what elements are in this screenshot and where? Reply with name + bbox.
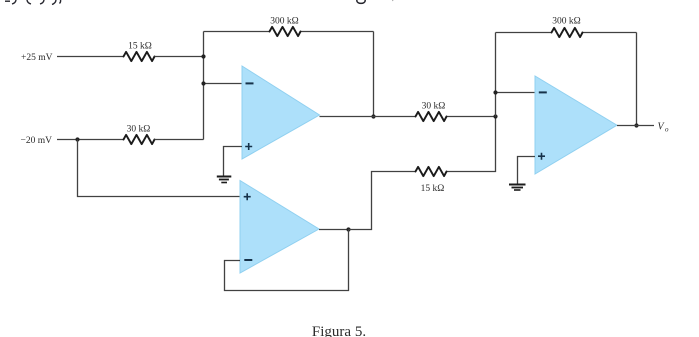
wire: +25 mV input to R1 (57, 56, 124, 58)
resistor R6 300 kΩ (feedback U3) (552, 17, 583, 38)
node: junction dot node B / inverting input U3 (493, 90, 497, 94)
wire: feedback top rail U3 (496, 32, 637, 34)
svg-text:−20 mV: −20 mV (21, 136, 53, 146)
node: junction dot R1/node A (201, 54, 205, 58)
svg-text:300 kΩ: 300 kΩ (552, 17, 580, 27)
wire: U3 output to Vo (617, 125, 654, 127)
svg-text:30 kΩ: 30 kΩ (422, 101, 446, 111)
node: summing node A vertical (inverting input net of U1) (203, 32, 205, 140)
wire: node B vertical to U3 inverting input and feedback (496, 33, 536, 117)
wire: U1 non-inverting input to ground (224, 147, 243, 177)
node: junction dot feedback/output U1 (371, 114, 375, 118)
wire: U2 output up through R5 to node B (349, 117, 496, 230)
wire: feedback right vertical to U1 output (373, 32, 375, 117)
svg-text:15 kΩ: 15 kΩ (421, 184, 445, 194)
svg-text:30 kΩ: 30 kΩ (127, 125, 151, 135)
svg-text:+25 mV: +25 mV (21, 53, 53, 63)
cropped text remnants at top edge (5, 0, 393, 5)
wire: -20 mV input to R2 (57, 139, 124, 141)
ground (U3 +) (509, 185, 526, 191)
resistor R2 30 kΩ (124, 125, 155, 144)
wire: feedback top rail U1 (204, 31, 374, 33)
wire: U2 output to junction (319, 229, 349, 231)
wire: R1 to summing node (155, 56, 204, 58)
resistor R3 300 kΩ (feedback U1) (270, 17, 301, 37)
resistor R1 15 kΩ (124, 42, 155, 62)
node: junction dot node A / inverting input (201, 81, 205, 85)
wire: feedback right vertical to U3 output (636, 33, 638, 126)
node: junction dot U2 output (346, 227, 350, 231)
wire: -20mV branch down to U2 non-inverting input (78, 140, 241, 197)
node: junction dot node B / R4 (493, 114, 497, 118)
resistor R5 15 kΩ (between stages) (416, 167, 447, 194)
node: junction dot feedback/output U3 (634, 123, 638, 127)
wire: R2 to summing node bottom (155, 139, 204, 141)
svg-text:o: o (665, 126, 669, 134)
label Vo (658, 122, 670, 134)
op-amp U2 (240, 181, 319, 274)
wire: U2 feedback loop (follower) (225, 230, 349, 291)
op-amp U3 (535, 76, 617, 174)
op-amp U1 (242, 66, 320, 159)
wire: U3 non-inverting input to ground (518, 157, 536, 185)
wire: U1 output row through R4 to node B (320, 116, 496, 118)
wire: node A to U1 inverting input (204, 83, 243, 85)
ground (U1 +) (217, 177, 232, 183)
svg-text:15 kΩ: 15 kΩ (128, 42, 152, 52)
svg-text:300 kΩ: 300 kΩ (270, 17, 298, 27)
svg-text:Figura 5.: Figura 5. (312, 324, 366, 337)
node: junction dot -20mV branch (75, 137, 79, 141)
resistor R4 30 kΩ (between stages) (416, 101, 447, 121)
